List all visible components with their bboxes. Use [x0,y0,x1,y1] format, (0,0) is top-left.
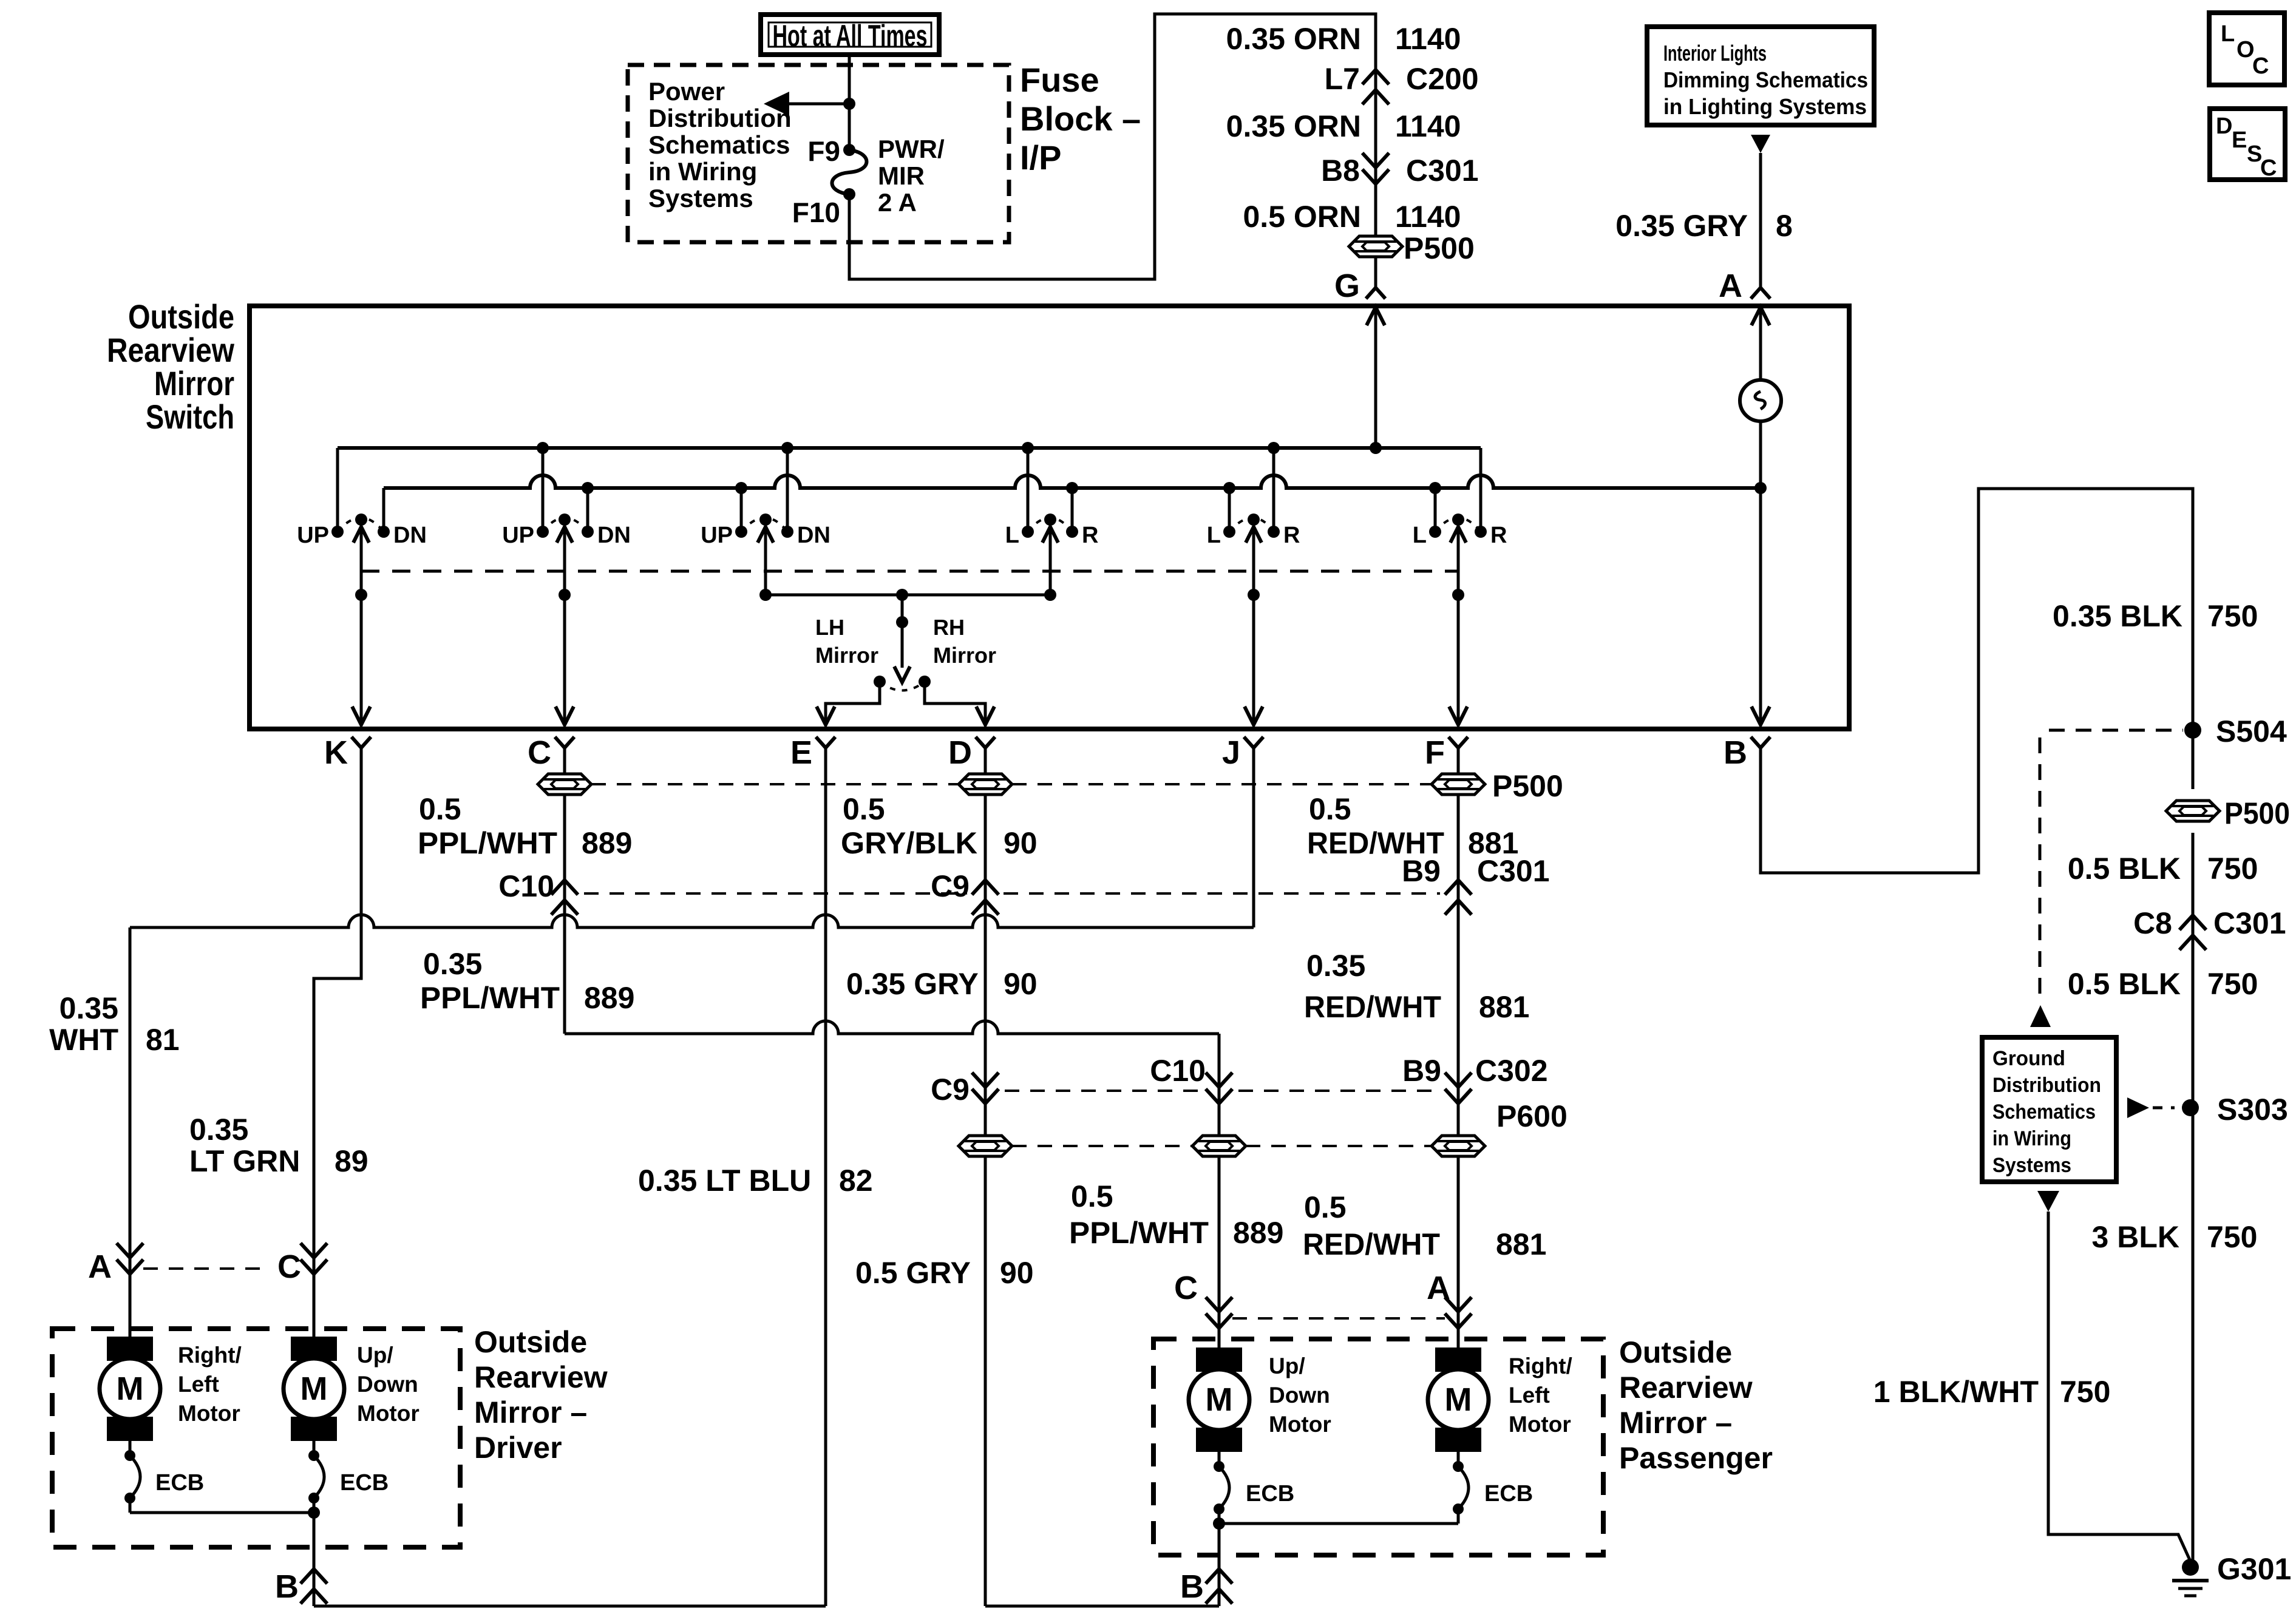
driver ECB 2 [308,1441,389,1503]
wire J line (to driver pin A) [130,748,1254,1261]
passenger mirror pin A connector [1427,1270,1472,1328]
driver right/left motor [100,1337,160,1441]
P500 dashed line [591,783,1432,785]
label 0.5 GRY 90 [855,1256,1034,1290]
svg-text:in Lighting Systems: in Lighting Systems [1663,94,1867,119]
svg-text:Motor: Motor [357,1401,419,1426]
wire D: pin D down (GRY 90) [984,748,987,1086]
svg-text:G301: G301 [2217,1552,2291,1586]
label Right/ Left Motor [178,1343,242,1426]
connector C301 pin C10 [498,869,578,915]
svg-text:UP: UP [502,523,534,548]
node bus2 junctions [582,482,1767,494]
svg-text:1140: 1140 [1395,200,1461,234]
passenger mirror pins dashed line [1232,1317,1445,1320]
svg-text:C301: C301 [2213,906,2286,940]
DESC reference box [2210,109,2285,181]
svg-text:D: D [948,734,972,771]
svg-text:Passenger: Passenger [1619,1441,1773,1475]
svg-text:3 BLK: 3 BLK [2092,1220,2179,1254]
fuse F9/F10 PWR/MIR 2A [832,144,867,200]
svg-text:Motor: Motor [1269,1412,1331,1437]
label 0.35 RED/WHT 881 [1304,949,1529,1024]
svg-text:DN: DN [393,523,427,548]
svg-text:P500: P500 [1492,769,1563,803]
svg-text:K: K [324,734,348,771]
svg-text:GRY/BLK: GRY/BLK [841,826,977,860]
svg-text:Left: Left [178,1372,219,1397]
svg-text:MIR: MIR [878,161,925,190]
svg-text:0.35 ORN: 0.35 ORN [1226,109,1361,143]
svg-text:L: L [1207,523,1221,548]
label Up/ Down Motor (passenger) [1269,1354,1331,1437]
svg-text:Rearview: Rearview [107,331,234,369]
pass-through P500 on F wire [1432,769,1563,803]
svg-text:Rearview: Rearview [1619,1371,1753,1405]
pass-through P500 on BLK wire [2166,796,2290,830]
svg-text:RED/WHT: RED/WHT [1307,826,1444,860]
svg-text:B8: B8 [1321,154,1360,188]
svg-text:Right/: Right/ [1509,1354,1572,1378]
svg-text:C301: C301 [1406,154,1479,188]
svg-text:C9: C9 [931,869,970,903]
svg-text:Left: Left [1509,1383,1550,1408]
svg-text:Systems: Systems [648,184,753,212]
svg-text:889: 889 [582,826,632,860]
driver mirror pin A connector [88,1243,143,1337]
svg-text:in Wiring: in Wiring [648,157,757,186]
svg-text:889: 889 [584,981,634,1015]
svg-text:C: C [277,1249,301,1285]
label 0.5 PPL/WHT 889 [418,792,632,860]
svg-text:Systems: Systems [1992,1154,2071,1177]
svg-text:P600: P600 [1496,1099,1567,1133]
svg-text:Power: Power [648,77,725,106]
passenger mirror dashed box [1153,1339,1603,1555]
svg-text:C9: C9 [931,1073,970,1107]
svg-text:ECB: ECB [155,1470,204,1496]
passenger pin B connector [1180,1568,1232,1606]
svg-text:881: 881 [1479,990,1529,1024]
svg-text:B: B [1724,734,1747,771]
svg-text:F10: F10 [792,197,840,228]
svg-text:2 A: 2 A [878,188,917,217]
connector C302 pin C10 (PPL wire) [1150,1054,1232,1347]
pass-through P500 on D wire [959,774,1012,795]
wire pole1 to pin K [352,595,370,725]
dashed branch to ground distribution [2040,730,2183,1000]
svg-text:L: L [1005,523,1019,548]
svg-text:Distribution: Distribution [1992,1074,2101,1097]
label 0.5 BLK 750 (lower) [2068,967,2258,1001]
label 0.35 LT BLU 82 [638,1164,873,1198]
label Outside Rearview Mirror - Passenger [1619,1335,1773,1475]
svg-text:D: D [2216,114,2232,139]
label 0.35 WHT 81 [49,991,179,1057]
svg-text:Rearview: Rearview [474,1360,608,1394]
driver motor common wire [130,1498,320,1575]
svg-text:L: L [1413,523,1427,548]
svg-text:C200: C200 [1406,62,1479,96]
svg-text:F: F [1425,734,1445,771]
triangle from interior lights box [1751,135,1770,153]
arrow into switch at A [1751,307,1770,381]
svg-text:Up/: Up/ [357,1343,393,1368]
svg-text:Mirror: Mirror [933,643,996,668]
pass-through P600 on RED wire [1432,1099,1567,1156]
svg-text:0.5 ORN: 0.5 ORN [1243,200,1361,234]
svg-text:UP: UP [297,523,329,548]
svg-text:C8: C8 [2133,906,2172,940]
wire A to bus2 and pin B [1759,421,1762,725]
fuse block dashed outline (Fuse Block - I/P) [628,65,1009,242]
wire C-link to passenger up/down feed [565,1021,1219,1085]
svg-text:82: 82 [839,1164,873,1198]
pass-through P600 on PPL wire [1192,1136,1246,1156]
connector C301 pin C9 [931,869,999,915]
driver mirror pin C connector [277,1243,327,1337]
svg-text:Dimming Schematics: Dimming Schematics [1663,67,1868,92]
svg-text:Down: Down [357,1372,418,1397]
svg-text:ECB: ECB [1246,1481,1294,1507]
svg-text:0.35 GRY: 0.35 GRY [1615,209,1748,243]
selector RH output to pin D [925,682,994,725]
svg-text:in Wiring: in Wiring [1992,1127,2071,1150]
wire: tap to power distribution (arrow left) [764,92,849,116]
svg-text:Up/: Up/ [1269,1354,1305,1378]
top bus (power) in switch [338,446,1481,450]
wire 0.35 GRY 8 to pin A [1615,153,1793,288]
svg-text:Right/: Right/ [178,1343,242,1368]
svg-text:DN: DN [797,523,830,548]
svg-text:L7: L7 [1325,62,1360,96]
svg-text:LH: LH [815,615,844,640]
svg-text:P500: P500 [1404,231,1475,265]
svg-text:0.5: 0.5 [419,792,461,826]
outside rearview mirror switch box [250,306,1849,729]
driver up/down motor [284,1337,344,1441]
label Outside Rearview Mirror Switch [107,297,234,436]
svg-text:WHT: WHT [49,1023,118,1057]
svg-text:0.5: 0.5 [843,792,885,826]
wire switch pin B to ground path [1761,489,2193,873]
wire driver B to switch pin E [314,1605,826,1608]
svg-text:S303: S303 [2217,1093,2288,1127]
triangle to ground distribution box [2030,1005,2051,1027]
svg-text:ECB: ECB [1484,1481,1533,1507]
driver mirror dashed box [52,1329,460,1547]
label PWR/ MIR 2 A [878,135,945,217]
wire F: pin F down (RED/WHT 881) [1457,748,1460,1086]
connector C301 pin C8 [2133,906,2286,950]
ref box: Ground Distribution Schematics in Wiring Systems [1982,1037,2116,1182]
svg-text:Outside: Outside [1619,1335,1732,1369]
passenger mirror pin C connector [1174,1270,1232,1328]
driver ECB 1 [124,1441,204,1503]
selector LH output to pin E [817,682,880,725]
svg-text:8: 8 [1776,209,1793,243]
lamp (illumination bulb) on A-B line [1740,380,1781,421]
svg-text:Hot at All Times: Hot at All Times [773,19,928,53]
svg-text:0.5: 0.5 [1309,792,1351,826]
node top bus junctions [537,442,1382,454]
label 0.5 RED/WHT 881 [1307,792,1518,860]
svg-text:0.35: 0.35 [423,947,482,981]
svg-text:C: C [1174,1270,1198,1306]
LOC reference box [2209,13,2284,85]
svg-text:Outside: Outside [474,1325,587,1359]
connector C302 dashed line [1005,1090,1439,1092]
svg-text:1140: 1140 [1395,109,1461,143]
wire to splice S303 [2192,938,2195,1567]
svg-text:UP: UP [701,523,733,548]
passenger ECB 2 [1453,1452,1533,1514]
wire: fuse output F10 to ORN riser [849,14,1376,288]
svg-text:1140: 1140 [1395,22,1461,56]
svg-text:Schematics: Schematics [648,131,790,159]
svg-text:750: 750 [2207,1220,2257,1254]
svg-text:B: B [275,1568,299,1605]
connector C200 pin L7 [1325,62,1479,104]
splice S504 [2184,707,2287,789]
svg-text:J: J [1222,734,1240,771]
passenger right/left motor [1428,1347,1489,1452]
svg-text:Driver: Driver [474,1431,562,1465]
label 3 BLK 750 [2092,1220,2258,1254]
svg-text:M: M [1206,1381,1233,1418]
switch pins K C E D J F B [324,734,1770,771]
svg-text:Mirror: Mirror [154,364,234,402]
svg-text:F9: F9 [807,135,840,167]
connector C302 pin C9 (D wire) [931,1073,999,1606]
svg-text:RED/WHT: RED/WHT [1304,990,1441,1024]
label 0.35 ORN 1140 (upper) [1226,22,1461,56]
svg-text:Outside: Outside [128,297,234,336]
connector C301 pin B8 [1321,153,1478,188]
label 0.35 BLK 750 [2053,599,2258,633]
label 0.5 BLK 750 (upper) [2068,852,2258,886]
svg-text:PPL/WHT: PPL/WHT [418,826,557,860]
svg-text:B9: B9 [1402,1054,1441,1088]
node pole shaft dots [355,589,1464,601]
label Fuse Block - I/P [1020,61,1141,177]
passenger motor common wire [1213,1509,1458,1575]
svg-text:Mirror –: Mirror – [1619,1406,1732,1440]
node: feed tap junction [843,98,855,110]
svg-text:A: A [1427,1270,1450,1306]
svg-text:0.5 GRY: 0.5 GRY [855,1256,971,1290]
svg-text:Ground: Ground [1992,1047,2065,1070]
svg-text:LT GRN: LT GRN [189,1144,300,1178]
svg-text:Schematics: Schematics [1992,1100,2096,1124]
svg-text:81: 81 [146,1023,180,1057]
svg-text:R: R [1082,523,1098,548]
svg-text:Fuse: Fuse [1020,61,1099,99]
label Right/ Left Motor (passenger) [1509,1354,1572,1437]
svg-text:0.5: 0.5 [1304,1190,1347,1224]
svg-text:90: 90 [1004,826,1038,860]
svg-text:M: M [301,1371,328,1407]
svg-text:889: 889 [1233,1216,1283,1250]
svg-text:A: A [1719,268,1742,304]
wire E: pin E down to driver B return [824,748,827,1606]
svg-text:0.35 ORN: 0.35 ORN [1226,22,1361,56]
svg-text:C: C [528,734,551,771]
arrow at pin B inside switch [1751,707,1770,725]
splice S303 [2182,1093,2288,1127]
svg-text:R: R [1283,523,1300,548]
svg-text:750: 750 [2207,599,2258,633]
svg-text:Down: Down [1269,1383,1330,1408]
label 0.5 GRY/BLK 90 [841,792,1038,860]
svg-text:90: 90 [1004,967,1038,1001]
svg-text:Motor: Motor [1509,1412,1571,1437]
svg-text:881: 881 [1468,826,1518,860]
svg-text:0.35 BLK: 0.35 BLK [2053,599,2182,633]
svg-text:RED/WHT: RED/WHT [1303,1227,1440,1261]
wire K: pin K down, jog to driver pin C [314,748,361,1261]
wire 1 BLK/WHT 750 to G301 [2048,1212,2190,1561]
svg-text:Interior Lights: Interior Lights [1663,41,1767,66]
label Outside Rearview Mirror - Driver [474,1325,608,1465]
svg-text:PPL/WHT: PPL/WHT [1069,1216,1209,1250]
driver mirror pins dashed line [143,1267,270,1270]
power feed label box: Hot at All Times [761,15,939,55]
passenger up/down motor [1189,1347,1249,1452]
svg-text:89: 89 [335,1144,369,1178]
svg-text:750: 750 [2060,1375,2110,1409]
wire BLK to C301 [2192,833,2195,938]
connector C301 dashed line [584,892,1440,895]
svg-text:0.35 LT BLU: 0.35 LT BLU [638,1164,811,1198]
svg-text:C10: C10 [1150,1054,1206,1088]
svg-text:B: B [1180,1568,1204,1605]
svg-text:C10: C10 [498,869,554,903]
pin G of mirror switch [1334,268,1385,304]
svg-text:ECB: ECB [340,1470,389,1496]
LH/RH mirror selector switch [815,595,996,691]
mechanical link dashed line [361,570,1458,573]
pass-through P500 on ORN wire [1349,231,1475,265]
svg-text:1 BLK/WHT: 1 BLK/WHT [1873,1375,2039,1409]
note: Power Distribution Schematics in Wiring Systems [648,77,792,212]
svg-text:0.5: 0.5 [1071,1179,1113,1213]
svg-text:M: M [117,1371,144,1407]
svg-text:Motor: Motor [178,1401,240,1426]
svg-text:Mirror –: Mirror – [474,1395,587,1429]
svg-text:0.5 BLK: 0.5 BLK [2068,852,2181,886]
svg-text:L: L [2221,21,2235,47]
connector C301 pin B9 [1402,854,1549,915]
label Up/ Down Motor [357,1343,419,1426]
label 0.5 RED/WHT 881 (passenger) [1303,1190,1546,1261]
wire: hot feed into fuse [848,56,851,150]
passenger ECB 1 [1214,1452,1294,1514]
svg-text:I/P: I/P [1020,138,1061,177]
svg-text:PPL/WHT: PPL/WHT [420,981,560,1015]
svg-text:C302: C302 [1475,1054,1548,1088]
svg-text:M: M [1445,1381,1472,1418]
pass-through P600 on GRY wire [959,1136,1012,1156]
pass-through P500 on C wire [538,774,591,795]
svg-text:R: R [1490,523,1507,548]
link wire pole3-selector-poleLR1 [766,594,1050,597]
wire passenger B to switch pin D (GRY 90) [985,1605,1219,1608]
label 0.35 GRY 90 [846,967,1038,1001]
svg-text:A: A [88,1249,112,1285]
arrow into switch at G [1367,307,1385,448]
label 0.5 PPL/WHT 889 (passenger) [1069,1179,1283,1250]
arrow from ground box to S303 [2127,1097,2175,1118]
svg-text:S504: S504 [2216,714,2287,748]
label 0.5 ORN 1140 [1243,200,1461,234]
svg-text:0.5 BLK: 0.5 BLK [2068,967,2181,1001]
P600 dashed line [1012,1145,1432,1147]
svg-text:750: 750 [2207,852,2258,886]
svg-text:C: C [2252,53,2269,79]
label 0.35 ORN 1140 (mid) [1226,109,1461,143]
svg-text:0.35 GRY: 0.35 GRY [846,967,979,1001]
svg-text:E: E [2232,127,2247,153]
switch contacts and poles (3x UP/DN, 3x L/R) [297,448,1507,595]
pin A of mirror switch [1719,268,1770,304]
svg-text:PWR/: PWR/ [878,135,945,163]
svg-text:0.35: 0.35 [1306,949,1365,983]
svg-text:E: E [790,734,812,771]
ground G301 [2172,1552,2291,1596]
wire pole2 to pin C [555,595,574,725]
svg-text:Switch: Switch [146,398,234,436]
wire C: pin C through P500 and C10 [563,748,566,1034]
label 0.35 LT GRN 89 [189,1113,369,1178]
svg-text:90: 90 [1000,1256,1034,1290]
label 1 BLK/WHT 750 [1873,1375,2111,1409]
svg-text:881: 881 [1496,1227,1546,1261]
svg-text:P500: P500 [2224,796,2290,830]
svg-text:0.35: 0.35 [59,991,118,1025]
driver pin B connector [275,1568,327,1606]
label 0.35 PPL/WHT 889 [420,947,634,1015]
svg-text:C: C [2260,155,2277,181]
svg-text:750: 750 [2207,967,2258,1001]
svg-text:DN: DN [597,523,631,548]
triangle below ground box [2037,1191,2059,1212]
ref box: Interior Lights Dimming Schematics in Lighting Systems [1647,27,1874,125]
label F10 [792,197,840,228]
connector C302 pin B9 (F wire) [1402,1054,1547,1347]
svg-text:Distribution: Distribution [648,104,792,132]
svg-text:0.35: 0.35 [189,1113,248,1147]
svg-text:RH: RH [933,615,965,640]
wire poleLR2 to pin J [1245,595,1263,725]
svg-text:Mirror: Mirror [815,643,878,668]
wire poleLR3 to pin F [1449,595,1467,725]
label F9 [807,135,840,167]
bus2 (lamp return) in switch [384,475,1761,488]
svg-text:G: G [1334,268,1360,304]
svg-text:Block –: Block – [1020,100,1141,138]
